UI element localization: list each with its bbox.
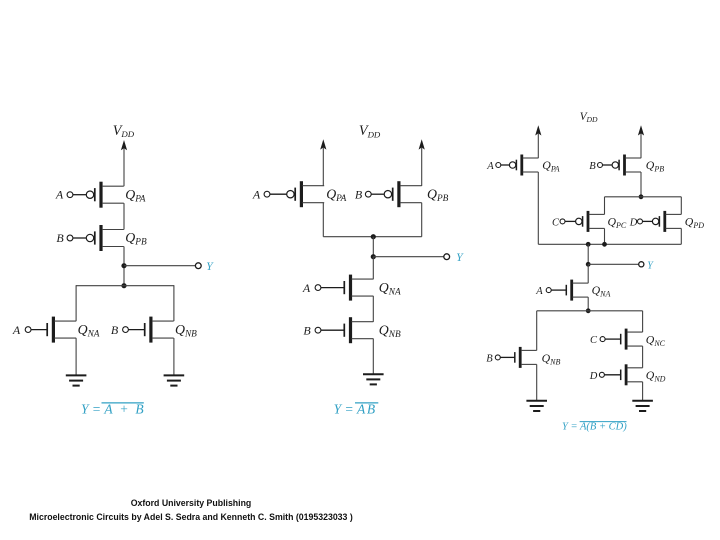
transistor QNA (NMOS): [25, 317, 76, 343]
wire: upper rail down to QPD source: [680, 197, 682, 215]
wire: arrow shaft to QPA source: [537, 133, 539, 158]
svg-text:QNB: QNB: [542, 351, 561, 367]
svg-text:D: D: [629, 217, 638, 228]
VDD arrow right (right circuit): [638, 125, 644, 135]
wire: node X down to QNC drain: [642, 311, 644, 332]
wire: node X down to QNB drain: [536, 311, 538, 351]
wire: rail down to QNB drain: [173, 285, 175, 321]
wire: upper PUN rail: [605, 196, 682, 198]
svg-text:Y: Y: [456, 252, 464, 264]
wire: arrow shaft down to QPB source: [421, 147, 423, 186]
wire: QPD drain down to lower rail: [680, 228, 682, 244]
wire: VDD arrow shaft down to QPA source: [123, 148, 125, 186]
transistor QPB (PMOS, right): [598, 155, 642, 176]
wire: QPA drain down to common rail: [322, 203, 324, 237]
transistor QNC (NMOS): [600, 329, 643, 350]
transistor QNA (NMOS, middle): [315, 275, 373, 301]
wire: output node down to QNA drain: [372, 257, 374, 280]
caption: publisher credit: [0, 497, 382, 524]
middle circuit: CMOS NAND gate: [252, 123, 464, 416]
transistor QNB (NMOS, middle): [315, 317, 373, 343]
svg-text:A: A: [302, 281, 311, 295]
svg-text:D: D: [589, 371, 598, 382]
svg-text:QNA: QNA: [78, 322, 100, 340]
wire: upper rail down to QPC source: [604, 197, 606, 215]
wire: QNB source to ground (right): [536, 364, 538, 400]
wire: QNB source to ground: [173, 338, 175, 375]
junction: lower rail / output branch: [586, 242, 591, 247]
transistor QPA (PMOS, middle): [264, 181, 324, 207]
wire: PDN rail (node X): [537, 310, 643, 312]
svg-text:Y: Y: [647, 260, 654, 271]
transistor QPC (PMOS): [560, 211, 605, 232]
output terminal circle Y (right): [639, 262, 644, 267]
junction: QPB drain to parallel pair: [639, 194, 644, 199]
svg-text:QNA: QNA: [379, 280, 401, 298]
svg-text:QPA: QPA: [125, 187, 145, 205]
svg-text:QPD: QPD: [685, 215, 704, 231]
svg-text:QPB: QPB: [125, 230, 147, 248]
svg-text:B: B: [355, 188, 363, 202]
svg-text:Y = A + B: Y = A + B: [81, 401, 144, 416]
svg-text:A: A: [55, 188, 64, 202]
svg-text:QNA: QNA: [592, 283, 611, 299]
VDD arrow right (middle circuit): [419, 139, 425, 149]
left circuit: CMOS NOR gate: [12, 123, 214, 416]
ground (under QNB): [164, 375, 185, 385]
wire: to output terminal Y (middle): [373, 256, 444, 258]
svg-text:QPB: QPB: [646, 158, 664, 174]
right circuit: CMOS complex gate Y = NOT(A(B+CD)): [486, 111, 704, 433]
wire: QPA drain down to lower PUN rail: [537, 172, 539, 244]
junction: output node Y tap (right): [586, 262, 591, 267]
ground (under QND, right): [632, 401, 653, 411]
svg-text:A: A: [252, 188, 261, 202]
wire: QPA drain to QPB source: [123, 203, 125, 229]
svg-text:QPB: QPB: [427, 187, 449, 205]
junction: common drain node: [371, 234, 376, 239]
junction: PDN node X: [586, 308, 591, 313]
junction: PDN rail node: [121, 283, 126, 288]
transistor QNB (NMOS, right): [495, 347, 536, 368]
VDD arrow left (right circuit): [535, 125, 541, 135]
svg-text:QNB: QNB: [379, 323, 401, 341]
formula Y = NOT(A(B+CD)) (cyan): [562, 421, 627, 432]
svg-text:Y = AB: Y = AB: [334, 401, 377, 416]
wire: QNA source to QNB drain: [372, 296, 374, 322]
wire: to output terminal Y (right): [588, 263, 639, 265]
transistor QPD (PMOS): [638, 211, 682, 232]
svg-text:QNB: QNB: [175, 322, 197, 340]
junction: output node Y tap: [121, 263, 126, 268]
svg-text:B: B: [56, 231, 64, 245]
formula Y = NOT(AB) (cyan): [334, 401, 379, 416]
svg-text:Y: Y: [206, 261, 214, 273]
svg-text:QPA: QPA: [542, 158, 559, 174]
svg-text:Y = A(B + CD): Y = A(B + CD): [562, 421, 627, 432]
wire: PMOS common drain rail: [323, 236, 421, 238]
wire: lower PUN rail: [538, 243, 681, 245]
svg-text:C: C: [590, 335, 598, 346]
svg-text:A: A: [535, 286, 543, 297]
wire: QND source to ground (right): [642, 382, 644, 401]
output terminal circle Y (middle): [444, 254, 450, 260]
transistor QPB (PMOS): [67, 225, 124, 251]
wire: QPB drain down to output node: [123, 247, 125, 286]
formula Y = NOT(A+B) (cyan): [81, 401, 144, 416]
wire: down to output node: [372, 237, 374, 257]
wire: NMOS drain rail: [76, 285, 174, 287]
output terminal circle Y: [195, 263, 201, 269]
svg-text:QND: QND: [646, 368, 666, 384]
wire: QNB source to ground (middle): [372, 339, 374, 375]
wire: arrow shaft to QPB source: [640, 133, 642, 158]
svg-text:VDD: VDD: [580, 111, 598, 124]
ground (under QNB, right): [526, 401, 547, 411]
svg-text:B: B: [589, 161, 596, 172]
VDD arrow left (middle circuit): [320, 139, 326, 149]
VDD arrow (left circuit): [121, 140, 127, 150]
svg-text:VDD: VDD: [359, 123, 381, 139]
transistor QPA (PMOS, right): [496, 155, 539, 176]
svg-text:QPC: QPC: [608, 215, 627, 231]
wire: QPB drain down to common rail: [421, 203, 423, 237]
transistor QNB (NMOS): [123, 317, 174, 343]
wire: QNC source to QND drain: [642, 346, 644, 368]
junction: lower rail / QPC drain: [602, 242, 607, 247]
svg-text:QPA: QPA: [326, 187, 346, 205]
ground (under QNA): [66, 375, 87, 385]
svg-text:B: B: [111, 323, 119, 337]
wire: QPC drain down to lower rail: [604, 228, 606, 244]
transistor QPB (PMOS, middle): [365, 181, 421, 207]
wire: output node down to QNA drain (right): [587, 264, 589, 283]
wire: rail down to output node (right): [587, 244, 589, 264]
svg-text:A: A: [12, 323, 21, 337]
junction: output node Y tap (middle): [371, 254, 376, 259]
transistor QND (NMOS): [599, 364, 642, 385]
transistor QNA (NMOS, right): [546, 280, 588, 301]
transistor QPA (PMOS): [67, 182, 124, 208]
svg-text:A: A: [486, 161, 494, 172]
svg-text:VDD: VDD: [113, 123, 135, 139]
ground (middle circuit): [363, 374, 384, 384]
wire: QNA source down to PDN rail: [587, 297, 589, 311]
wire: to output terminal Y: [124, 265, 195, 267]
svg-text:B: B: [303, 324, 311, 338]
svg-text:QNC: QNC: [646, 332, 666, 348]
wire: arrow shaft down to QPA source: [322, 147, 324, 186]
wire: QPB drain down to upper PUN rail: [640, 172, 642, 197]
wire: rail down to QNA drain: [75, 285, 77, 321]
wire: QNA source to ground: [75, 338, 77, 375]
svg-text:C: C: [552, 217, 560, 228]
svg-text:B: B: [486, 354, 493, 365]
